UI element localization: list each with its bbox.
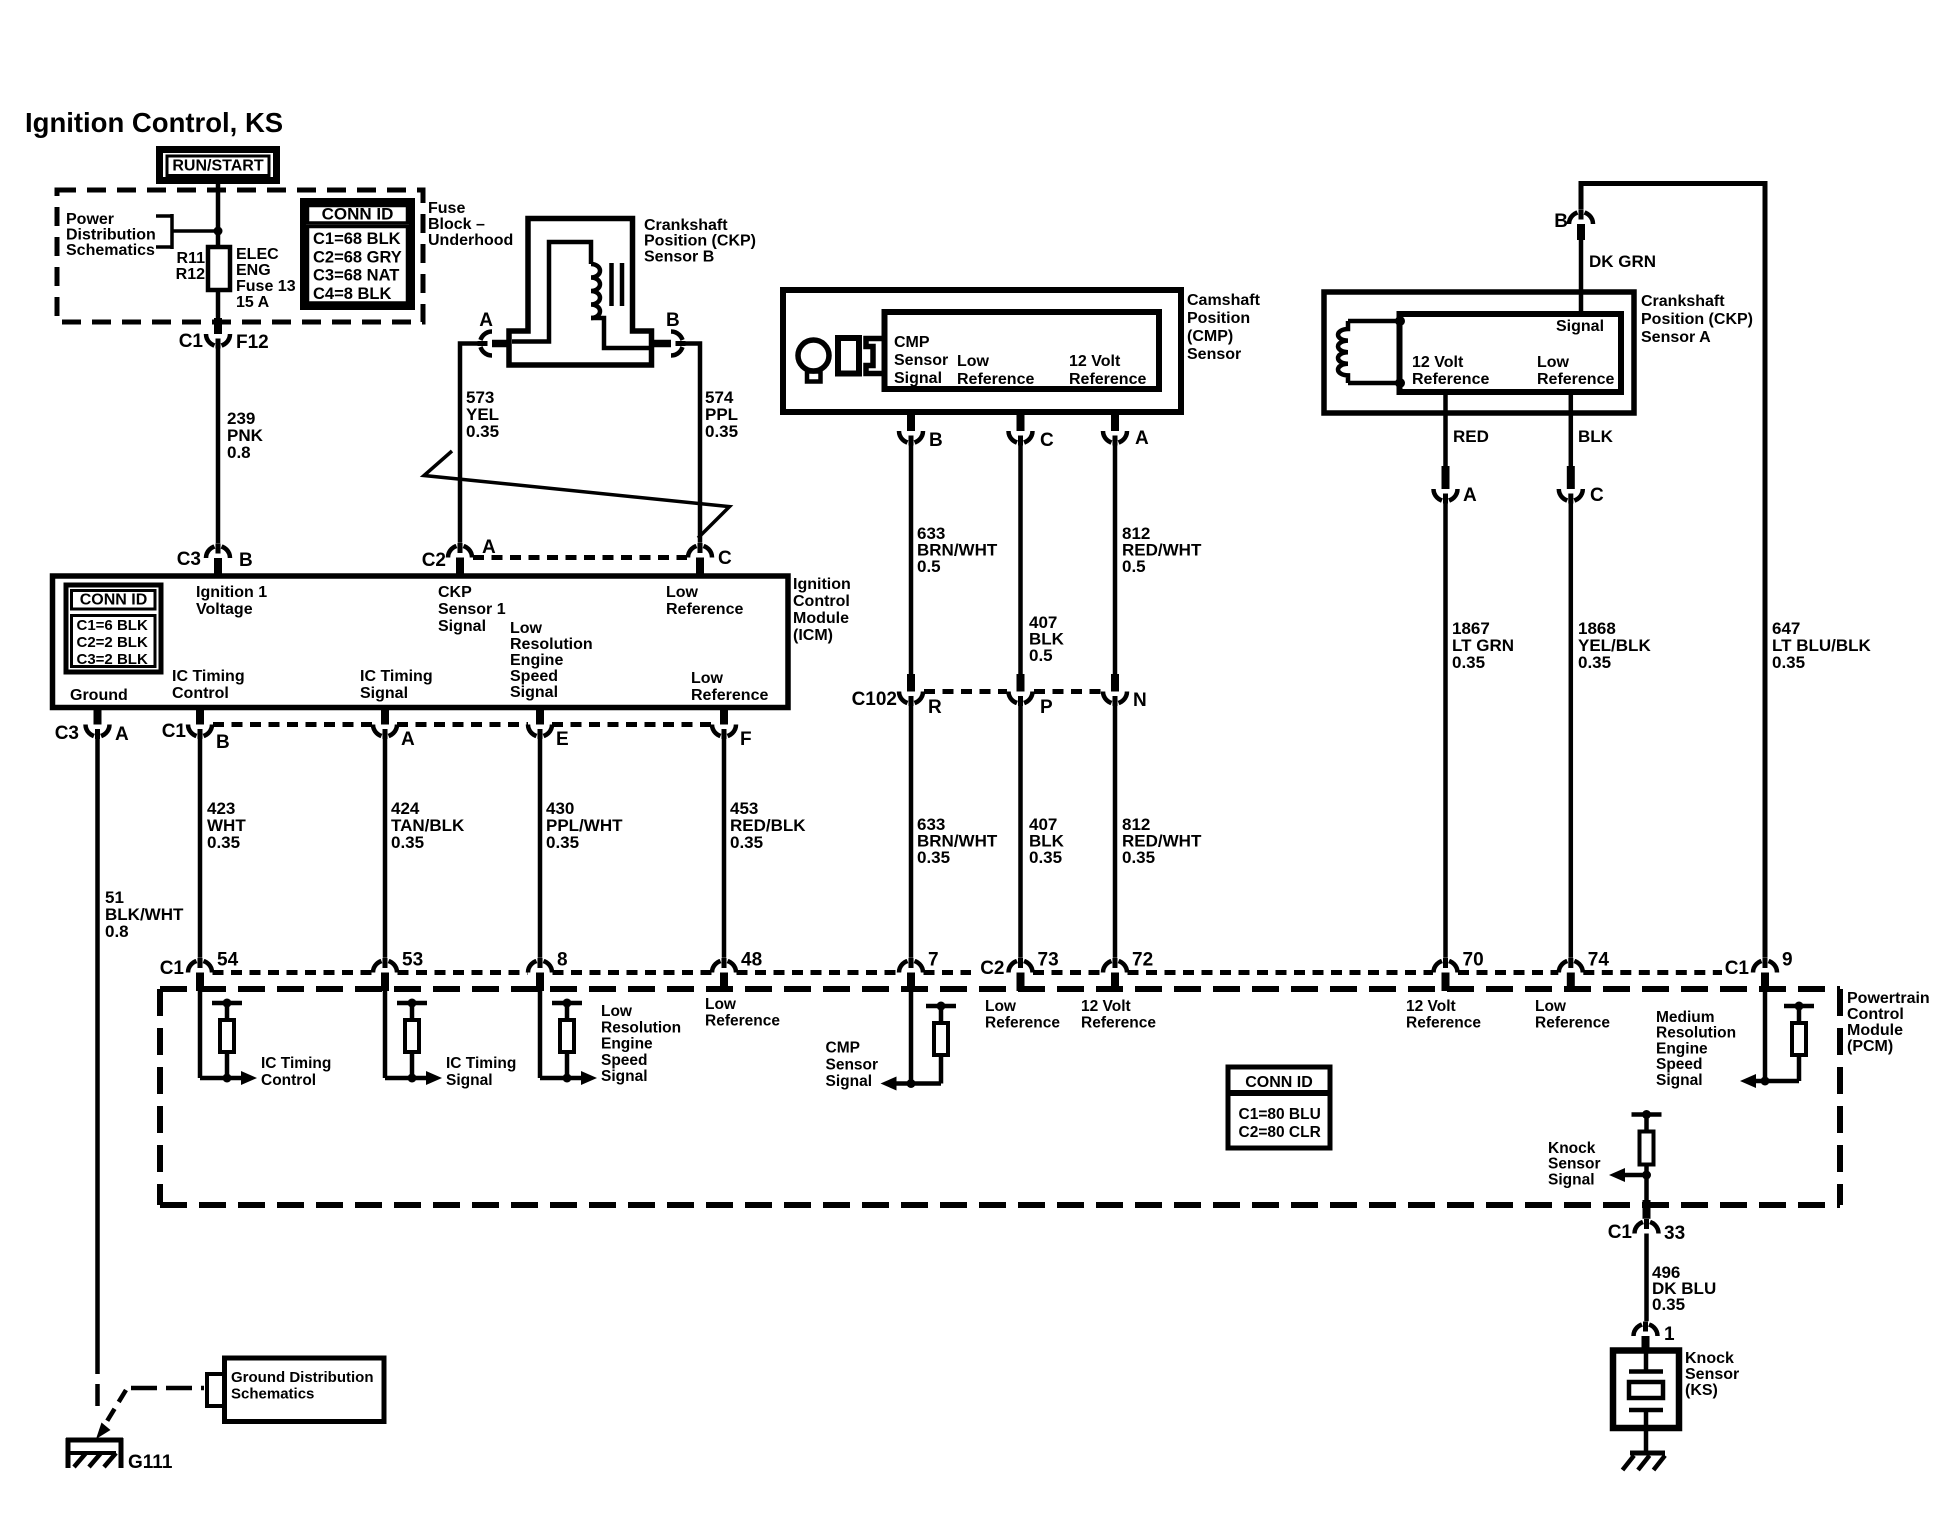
bracket to power distribution	[156, 214, 218, 249]
svg-text:C3=68 NAT: C3=68 NAT	[313, 267, 399, 285]
wire dashed connector line PCM row	[213, 970, 373, 975]
svg-text:Fuse 13: Fuse 13	[236, 278, 296, 295]
svg-text:Signal: Signal	[438, 618, 486, 635]
svg-text:F: F	[740, 729, 752, 750]
svg-text:Reference: Reference	[705, 1012, 780, 1029]
svg-text:Resolution: Resolution	[1656, 1025, 1736, 1042]
resistor network medium resolution engine speed (pin 9)	[1740, 991, 1814, 1088]
svg-text:Reference: Reference	[985, 1014, 1060, 1031]
crankshaft position sensor B body	[509, 219, 652, 366]
svg-text:Resolution: Resolution	[510, 636, 593, 653]
svg-text:0.35: 0.35	[705, 422, 738, 441]
resistor network knock sensor signal	[1609, 1110, 1662, 1182]
svg-text:B: B	[666, 310, 680, 331]
svg-text:Low: Low	[1535, 998, 1567, 1015]
knock sensor crystal element	[1629, 1353, 1663, 1428]
connector pin A of CKP sensor A	[1434, 466, 1478, 506]
svg-text:Medium: Medium	[1656, 1009, 1715, 1026]
wire fuse to connector	[216, 290, 221, 320]
wire 1867 LT GRN 0.35	[1443, 498, 1448, 966]
ground distribution schematics box	[225, 1358, 385, 1422]
junction node coil top	[1395, 316, 1405, 326]
svg-text:C1=80 BLU: C1=80 BLU	[1239, 1106, 1321, 1123]
wire 423 WHT	[198, 734, 203, 967]
connector C102 pin P	[1009, 674, 1054, 718]
svg-text:12 Volt: 12 Volt	[1081, 998, 1131, 1015]
svg-text:0.8: 0.8	[105, 922, 129, 941]
svg-text:Signal: Signal	[446, 1072, 493, 1089]
svg-text:Reference: Reference	[666, 601, 743, 618]
connector C1 pin 33	[1608, 1200, 1685, 1244]
svg-text:Position (CKP): Position (CKP)	[644, 233, 756, 250]
svg-text:Control: Control	[261, 1072, 316, 1089]
wire dashed branch to ground distribution	[131, 1386, 204, 1391]
svg-text:Sensor B: Sensor B	[644, 248, 714, 265]
wire top jumper to 647	[1581, 184, 1765, 967]
connector pin C of CKP sensor A	[1559, 466, 1604, 506]
connector pin C of CMP sensor	[1009, 412, 1055, 451]
arrow to ground G111	[96, 1423, 111, 1440]
svg-text:BLK: BLK	[1578, 427, 1614, 446]
connector C2 pin A (ICM)	[422, 537, 496, 576]
CKP sensor A inner box	[1400, 314, 1622, 392]
svg-text:Engine: Engine	[1656, 1040, 1708, 1057]
wire 633 BRN/WHT 0.5	[909, 440, 914, 674]
svg-text:Reference: Reference	[1537, 371, 1614, 388]
svg-text:C: C	[1040, 430, 1054, 451]
svg-text:C2=2 BLK: C2=2 BLK	[77, 634, 148, 651]
svg-text:IC Timing: IC Timing	[172, 668, 245, 685]
svg-text:Ground: Ground	[70, 687, 128, 704]
svg-text:(ICM): (ICM)	[793, 627, 833, 644]
svg-text:Sensor 1: Sensor 1	[438, 601, 506, 618]
svg-text:0.35: 0.35	[917, 848, 950, 867]
svg-text:Ignition: Ignition	[793, 576, 851, 593]
svg-text:Signal: Signal	[894, 370, 942, 387]
svg-text:C3: C3	[55, 723, 79, 744]
svg-text:A: A	[479, 310, 493, 331]
connector C1 pin A (IC timing signal)	[373, 708, 415, 751]
svg-text:E: E	[556, 729, 569, 750]
svg-text:15 A: 15 A	[236, 294, 270, 311]
svg-text:C3=2 BLK: C3=2 BLK	[77, 651, 148, 668]
connector C3 pin A (ICM ground)	[55, 708, 129, 746]
svg-text:B: B	[216, 732, 230, 753]
svg-text:Schematics: Schematics	[231, 1386, 314, 1403]
svg-text:Low: Low	[985, 998, 1017, 1015]
wire dashed connector line C2 A-C	[473, 555, 687, 560]
svg-text:Sensor: Sensor	[826, 1056, 879, 1073]
wire 51 BLK/WHT ground wire	[95, 734, 100, 1353]
svg-text:C1: C1	[1608, 1222, 1633, 1243]
svg-text:Sensor: Sensor	[894, 352, 948, 369]
svg-text:C2: C2	[980, 958, 1004, 979]
wire RED 12 volt reference	[1443, 392, 1448, 467]
svg-text:Power: Power	[66, 211, 114, 228]
svg-text:CMP: CMP	[826, 1040, 860, 1057]
svg-text:ELEC: ELEC	[236, 246, 279, 263]
svg-text:C1=68 BLK: C1=68 BLK	[313, 230, 401, 248]
svg-text:1: 1	[1664, 1324, 1675, 1345]
svg-text:A: A	[401, 729, 415, 750]
coil of CKP sensor A	[1338, 316, 1405, 388]
svg-text:Low: Low	[705, 996, 737, 1013]
resistor network low resolution engine speed (pin 8)	[540, 991, 597, 1085]
svg-text:G111: G111	[128, 1452, 173, 1473]
svg-text:Signal: Signal	[601, 1068, 648, 1085]
wire 496 DK BLU 0.35	[1644, 1234, 1649, 1325]
svg-text:(PCM): (PCM)	[1847, 1038, 1893, 1055]
svg-text:Sensor: Sensor	[1548, 1156, 1601, 1173]
wire dashed connector line C1 B-F	[213, 722, 373, 727]
svg-text:70: 70	[1463, 950, 1484, 971]
svg-text:C1=6 BLK: C1=6 BLK	[77, 617, 148, 634]
svg-text:R: R	[928, 697, 942, 718]
connector pin 74 (PCM)	[1559, 950, 1610, 992]
svg-text:Control: Control	[793, 593, 850, 610]
svg-text:Sensor: Sensor	[1187, 346, 1241, 363]
svg-text:Low: Low	[666, 584, 699, 601]
svg-text:C1: C1	[160, 958, 185, 979]
camshaft position CMP sensor outer box	[783, 290, 1181, 412]
svg-text:Resolution: Resolution	[601, 1019, 681, 1036]
svg-text:Module: Module	[793, 610, 849, 627]
svg-text:0.35: 0.35	[1652, 1295, 1685, 1314]
resistor network IC timing control (pin 54)	[200, 991, 257, 1085]
fuse ELEC ENG Fuse 13 15 A (R11 R12)	[176, 246, 296, 311]
wire ignition feed from RUN/START	[216, 184, 221, 247]
svg-text:Signal: Signal	[510, 684, 558, 701]
svg-text:0.35: 0.35	[1029, 848, 1062, 867]
svg-text:C1: C1	[179, 331, 204, 352]
svg-text:Underhood: Underhood	[428, 232, 513, 249]
svg-text:C1: C1	[162, 721, 187, 742]
svg-text:Signal: Signal	[826, 1073, 873, 1090]
connector pin 7 (PCM)	[899, 950, 939, 992]
connector pin B of CKP sensor B	[654, 310, 686, 356]
svg-text:0.35: 0.35	[1122, 848, 1155, 867]
svg-text:CMP: CMP	[894, 334, 930, 351]
connector C1 pin F12	[179, 318, 269, 353]
svg-text:0.5: 0.5	[1029, 646, 1053, 665]
svg-text:0.35: 0.35	[391, 833, 424, 852]
svg-text:73: 73	[1038, 950, 1059, 971]
svg-text:0.5: 0.5	[1122, 557, 1146, 576]
ground G111	[66, 1438, 123, 1468]
connector C2 pin 73 (PCM)	[980, 950, 1058, 992]
svg-text:Signal: Signal	[360, 685, 408, 702]
svg-text:Signal: Signal	[1556, 318, 1604, 335]
svg-text:Low: Low	[510, 620, 543, 637]
connector pin B of CMP sensor	[899, 412, 943, 451]
svg-text:Speed: Speed	[601, 1052, 648, 1069]
svg-text:Control: Control	[172, 685, 229, 702]
svg-text:A: A	[1135, 428, 1149, 449]
bracket to ground distribution box	[207, 1372, 225, 1408]
svg-text:Knock: Knock	[1548, 1140, 1596, 1157]
coil of CKP sensor B	[591, 264, 600, 318]
svg-text:Control: Control	[1847, 1006, 1904, 1023]
wire 574 PPL 0.35	[677, 344, 700, 552]
connector pin A of CMP sensor	[1103, 412, 1149, 449]
svg-text:CONN ID: CONN ID	[80, 592, 148, 609]
svg-text:C2=80 CLR: C2=80 CLR	[1239, 1124, 1321, 1141]
CMP sensor plug symbol	[838, 338, 884, 374]
svg-text:0.35: 0.35	[466, 422, 499, 441]
svg-text:9: 9	[1782, 950, 1793, 971]
svg-text:IC Timing: IC Timing	[360, 668, 433, 685]
svg-text:IC Timing: IC Timing	[261, 1055, 331, 1072]
svg-text:Ignition 1: Ignition 1	[196, 584, 267, 601]
svg-text:A: A	[115, 724, 129, 745]
connector pin 70 (PCM)	[1434, 950, 1484, 992]
svg-text:53: 53	[402, 950, 423, 971]
svg-text:Reference: Reference	[1069, 371, 1146, 388]
svg-text:CONN ID: CONN ID	[1245, 1074, 1313, 1091]
svg-text:Reference: Reference	[1406, 1014, 1481, 1031]
svg-text:Signal: Signal	[1656, 1072, 1703, 1089]
ground (knock sensor)	[1623, 1453, 1666, 1470]
connector C1 pin 54 (PCM)	[160, 950, 239, 992]
connector C1 pin 9 (PCM)	[1725, 950, 1793, 992]
wire 430 PPL/WHT	[538, 734, 543, 967]
svg-text:CKP: CKP	[438, 584, 472, 601]
svg-text:Reference: Reference	[957, 371, 1034, 388]
wire dashed diagonal to G111	[101, 1390, 126, 1431]
svg-text:Engine: Engine	[510, 652, 563, 669]
powertrain control module PCM dashed outline	[160, 989, 1840, 1205]
wire 453 RED/BLK	[722, 734, 727, 967]
junction node coil bottom	[1395, 378, 1405, 388]
CMP sensor bulb symbol	[798, 340, 829, 382]
svg-text:(KS): (KS)	[1685, 1382, 1718, 1399]
wire 573 YEL 0.35	[460, 344, 485, 552]
knock sensor KS box	[1613, 1351, 1679, 1429]
svg-text:Knock: Knock	[1685, 1350, 1734, 1367]
svg-text:B: B	[929, 430, 943, 451]
svg-text:7: 7	[928, 950, 939, 971]
svg-text:C4=8 BLK: C4=8 BLK	[313, 285, 391, 303]
wire BLK low reference	[1569, 392, 1574, 467]
svg-text:A: A	[1463, 485, 1477, 506]
svg-text:0.35: 0.35	[207, 833, 240, 852]
svg-text:Module: Module	[1847, 1022, 1903, 1039]
svg-text:C3: C3	[177, 549, 201, 570]
svg-text:C: C	[718, 548, 732, 569]
conn id table fuse block	[303, 201, 412, 307]
svg-text:Position: Position	[1187, 310, 1250, 327]
svg-text:Low: Low	[1537, 354, 1570, 371]
connector C1 pin E (low res engine speed)	[528, 708, 569, 751]
svg-text:Ground Distribution: Ground Distribution	[231, 1369, 373, 1386]
svg-text:0.8: 0.8	[227, 443, 251, 462]
svg-text:CONN ID: CONN ID	[322, 205, 394, 224]
svg-text:Camshaft: Camshaft	[1187, 292, 1261, 309]
svg-text:12 Volt: 12 Volt	[1412, 354, 1464, 371]
svg-text:RUN/START: RUN/START	[172, 158, 263, 175]
svg-text:8: 8	[557, 950, 568, 971]
svg-text:Schematics: Schematics	[66, 242, 155, 259]
wire 239 PNK 0.8	[216, 343, 221, 551]
svg-text:Position (CKP): Position (CKP)	[1641, 311, 1753, 328]
wire dashed connector line C102 P-N	[1034, 689, 1101, 694]
wire DK GRN signal	[1579, 238, 1584, 314]
svg-text:P: P	[1040, 697, 1053, 718]
svg-text:B: B	[239, 550, 253, 571]
wire 424 TAN/BLK	[383, 734, 388, 967]
connector pin A of CKP sensor B	[477, 310, 509, 356]
svg-text:C2=68 GRY: C2=68 GRY	[313, 248, 402, 266]
connector C102 pin R	[852, 674, 942, 718]
svg-text:12 Volt: 12 Volt	[1069, 353, 1121, 370]
conn id table PCM	[1228, 1067, 1330, 1148]
svg-text:Reference: Reference	[1535, 1014, 1610, 1031]
connector C1 pin B (IC timing control)	[162, 708, 230, 754]
junction node power distribution tap	[214, 227, 223, 236]
reluctor bars	[609, 263, 614, 306]
svg-text:Sensor A: Sensor A	[1641, 329, 1711, 346]
CMP sensor inner box	[885, 312, 1160, 389]
svg-text:C2: C2	[422, 550, 446, 571]
resistor network IC timing signal (pin 53)	[385, 991, 442, 1085]
svg-text:54: 54	[217, 950, 239, 971]
wire 1868 YEL/BLK 0.35	[1569, 498, 1574, 966]
wire 407 BLK 0.35	[1018, 701, 1023, 967]
connector C3 pin B (ICM)	[177, 543, 253, 576]
connector pin B of CKP sensor A	[1554, 209, 1593, 240]
connector pin 1 knock sensor	[1634, 1321, 1676, 1351]
svg-text:Speed: Speed	[510, 668, 558, 685]
wire twist crossover mark	[424, 451, 730, 538]
connector pin 53 (PCM)	[373, 950, 423, 992]
svg-text:Low: Low	[691, 670, 724, 687]
svg-text:0.35: 0.35	[1452, 653, 1485, 672]
connector pin 48 (PCM)	[712, 950, 762, 992]
svg-text:Block –: Block –	[428, 216, 485, 233]
conn id table ICM	[66, 585, 161, 672]
connector pin 72 (PCM)	[1103, 950, 1153, 992]
svg-text:R12: R12	[176, 266, 205, 283]
wire 812 RED/WHT 0.35	[1113, 701, 1118, 967]
svg-text:DK GRN: DK GRN	[1589, 252, 1656, 271]
svg-text:72: 72	[1132, 950, 1153, 971]
svg-text:Signal: Signal	[1548, 1171, 1595, 1188]
connector pin 8 (PCM)	[528, 950, 568, 992]
svg-text:Reference: Reference	[691, 687, 768, 704]
svg-text:R11: R11	[177, 250, 206, 267]
svg-text:B: B	[1554, 211, 1568, 232]
svg-text:0.35: 0.35	[1578, 653, 1611, 672]
svg-text:Distribution: Distribution	[66, 227, 156, 244]
svg-text:12 Volt: 12 Volt	[1406, 998, 1456, 1015]
svg-text:F12: F12	[236, 332, 269, 353]
svg-text:Reference: Reference	[1412, 371, 1489, 388]
switch RUN/START	[160, 150, 277, 181]
svg-text:(CMP): (CMP)	[1187, 328, 1233, 345]
crankshaft position CKP sensor A outer box	[1324, 292, 1634, 413]
svg-text:Low: Low	[601, 1003, 633, 1020]
fuse block underhood dashed outline	[57, 190, 423, 322]
svg-text:Engine: Engine	[601, 1036, 653, 1053]
svg-text:ENG: ENG	[236, 262, 271, 279]
svg-text:IC Timing: IC Timing	[446, 1055, 516, 1072]
svg-text:Speed: Speed	[1656, 1056, 1703, 1073]
svg-text:C: C	[1590, 485, 1604, 506]
svg-text:Ignition Control, KS: Ignition Control, KS	[25, 107, 283, 138]
connector C2 pin C (ICM)	[688, 543, 732, 576]
resistor network CMP sensor signal (pin 7)	[881, 991, 957, 1091]
wire dashed connector line C102 R-P	[924, 689, 1007, 694]
svg-text:48: 48	[741, 950, 762, 971]
svg-text:0.5: 0.5	[917, 557, 941, 576]
svg-text:Voltage: Voltage	[196, 601, 253, 618]
wire knock sensor to ground	[1644, 1428, 1649, 1453]
svg-text:N: N	[1133, 690, 1147, 711]
svg-text:Fuse: Fuse	[428, 200, 465, 217]
svg-text:C1: C1	[1725, 958, 1750, 979]
svg-text:RED: RED	[1453, 427, 1489, 446]
wire 812 RED/WHT 0.5	[1113, 440, 1118, 674]
svg-text:Sensor: Sensor	[1685, 1366, 1739, 1383]
svg-text:74: 74	[1588, 950, 1610, 971]
svg-text:C102: C102	[852, 689, 897, 710]
svg-text:Crankshaft: Crankshaft	[644, 217, 728, 234]
svg-text:0.35: 0.35	[546, 833, 579, 852]
svg-text:Crankshaft: Crankshaft	[1641, 293, 1725, 310]
connector C1 pin F (low reference)	[712, 708, 752, 751]
connector C102 pin N	[1103, 674, 1147, 711]
svg-text:Reference: Reference	[1081, 1014, 1156, 1031]
svg-text:A: A	[482, 537, 496, 558]
svg-text:33: 33	[1664, 1223, 1685, 1244]
svg-text:Low: Low	[957, 353, 990, 370]
svg-text:0.35: 0.35	[730, 833, 763, 852]
wire 633 BRN/WHT 0.35	[909, 701, 914, 967]
svg-text:0.35: 0.35	[1772, 653, 1805, 672]
wire dashed ground lead	[95, 1352, 100, 1414]
svg-text:Powertrain: Powertrain	[1847, 990, 1930, 1007]
wire knock sensor signal inside PCM	[1644, 1175, 1649, 1202]
ignition control module ICM box	[53, 576, 789, 708]
wire 407 BLK 0.5	[1018, 440, 1023, 674]
